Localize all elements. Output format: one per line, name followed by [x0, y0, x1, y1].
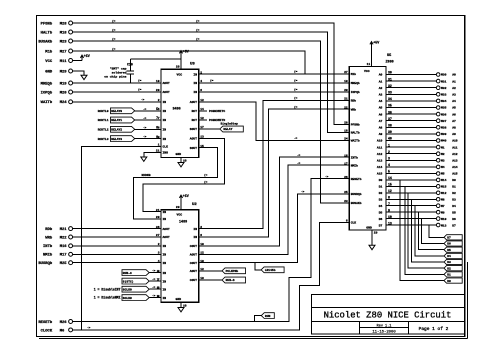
svg-text:RDb: RDb [351, 99, 357, 103]
svg-text:M22: M22 [60, 236, 68, 240]
svg-text:M4: M4 [441, 166, 445, 169]
svg-text:MREQb: MREQb [351, 81, 360, 85]
svg-text:1 = DisableNMI: 1 = DisableNMI [94, 296, 121, 300]
svg-text:AOUT: AOUT [163, 228, 170, 231]
svg-text:(=: (= [294, 79, 298, 83]
svg-text:D0: D0 [452, 179, 456, 182]
svg-text:A9: A9 [379, 133, 383, 136]
svg-text:20: 20 [344, 89, 348, 92]
svg-text:A15: A15 [452, 173, 458, 176]
svg-text:M30: M30 [441, 74, 447, 77]
svg-text:M17: M17 [60, 254, 68, 258]
connector pin M27 (M1b) [45, 49, 72, 54]
U2 right pin 6 IN [193, 234, 202, 239]
U3 right pin 12 AOUT [190, 99, 204, 104]
svg-text:RELAY2: RELAY2 [111, 129, 122, 132]
svg-text:AOUT: AOUT [190, 138, 197, 141]
U5 left pin 27 M1b [344, 71, 356, 76]
U5 right pin 14 D0 to connector M14 [379, 176, 456, 182]
svg-text:SingleStep: SingleStep [221, 122, 239, 126]
svg-text:RCT: RCT [192, 110, 198, 113]
svg-text:M1: M1 [441, 146, 445, 149]
U5 left pin 21 RDb [344, 98, 356, 103]
svg-text:(=: (= [294, 105, 298, 109]
svg-text:U2: U2 [192, 203, 197, 207]
U5 pin 11 VCC +5V [367, 41, 380, 67]
svg-text:D1: D1 [447, 274, 451, 277]
U3 left pin 18 AOUT [156, 80, 170, 85]
svg-text:RELAY0: RELAY0 [111, 110, 122, 113]
svg-text:5: 5 [156, 107, 158, 111]
net flag RUN~C to U2 pin 3 [122, 269, 161, 276]
svg-text:D3: D3 [447, 261, 451, 264]
svg-text:7: 7 [157, 278, 159, 281]
U2 left pin 21 IN [156, 209, 166, 214]
net flag SCLK0 to U2 pin 9 [122, 294, 161, 301]
wire WRb M22 to U2 [73, 236, 161, 238]
svg-text:D0: D0 [379, 179, 383, 182]
svg-text:C10: C10 [127, 63, 133, 67]
connector pin M20 (IOPQb) [41, 90, 73, 95]
svg-text:WAITb: WAITb [41, 100, 53, 105]
wire CLOCK M6 to U5 pin 6 [73, 222, 350, 330]
svg-text:(=: (= [204, 180, 208, 184]
svg-text:AOUT: AOUT [163, 82, 170, 85]
U2 left pin 36 AOUT [156, 226, 170, 231]
U3 pin 10 GND ground [178, 158, 187, 167]
svg-text:M12: M12 [441, 192, 447, 195]
svg-text:A8: A8 [452, 127, 456, 130]
svg-text:->: -> [152, 277, 156, 281]
svg-text:M11: M11 [60, 60, 68, 64]
svg-text:D1: D1 [452, 186, 456, 189]
svg-text:D2: D2 [447, 267, 451, 270]
svg-text:A15: A15 [377, 173, 383, 176]
svg-text:->: -> [325, 174, 329, 178]
svg-text:PCLKPNb: PCLKPNb [226, 269, 239, 273]
svg-text:(=: (= [196, 19, 200, 23]
svg-text:20: 20 [176, 66, 180, 69]
svg-text:->: -> [143, 116, 147, 120]
svg-text:VCC: VCC [177, 72, 183, 76]
U2 left pin 3 IN [158, 270, 167, 275]
U5 right pin 4 A14 to connector M4 [377, 163, 458, 169]
connector pin M21 (RDb) [45, 227, 72, 232]
wire U3 pin 13 to U2 pin 21 [143, 138, 225, 211]
U5 right pin 1 A11 to connector M1 [377, 143, 458, 149]
svg-text:AOUT: AOUT [190, 101, 197, 104]
svg-text:A5: A5 [452, 107, 456, 110]
wire IOPQb net U3 to U5 pin 20 [199, 88, 350, 92]
svg-text:D2: D2 [379, 192, 383, 195]
U5 right pin 8 D3 to connector M8 [379, 195, 456, 201]
svg-text:4: 4 [200, 80, 202, 83]
svg-text:S(STC): S(STC) [123, 279, 134, 283]
U3 right pin 6 IN [193, 89, 202, 94]
U5 right pin 9 D5 to connector M9 [379, 208, 456, 214]
U3 left pin 8 IN [158, 127, 167, 132]
svg-text:1489: 1489 [179, 221, 187, 225]
svg-text:AOUT: AOUT [190, 270, 197, 273]
svg-text:M28: M28 [60, 22, 68, 26]
U2 left pin 3 IN [158, 252, 167, 257]
svg-text:PFSNb: PFSNb [351, 123, 360, 127]
net flag SCLK0 to U2 pin 9 [122, 285, 161, 292]
svg-text:(=: (= [196, 37, 200, 41]
svg-text:M27: M27 [60, 50, 68, 54]
connector pin M29 (GND) [45, 69, 72, 74]
svg-text:IN: IN [163, 288, 167, 291]
svg-text:IN: IN [193, 73, 197, 76]
U2 left pin 9 IN [158, 286, 167, 291]
svg-text:->: -> [152, 294, 156, 298]
wire MREQb net U3 to U5 pin 19 [199, 79, 350, 83]
svg-text:CLK: CLK [163, 146, 169, 149]
svg-text:28: 28 [156, 89, 160, 92]
U5 right pin 31 A1 to connector M31 [379, 77, 456, 83]
svg-text:A9: A9 [452, 133, 456, 136]
U5 left pin 28 PFSNb [344, 122, 360, 127]
U3 left pin 2 IN [158, 99, 167, 104]
U5 right pin 36 A6 to connector M36 [379, 110, 456, 116]
connector pin M24 (WAITb) [41, 100, 73, 105]
svg-text:M7: M7 [441, 205, 445, 208]
svg-text:SOUT: SOUT [190, 128, 197, 131]
svg-text:(=: (= [138, 88, 142, 92]
svg-text:M21: M21 [60, 228, 68, 232]
svg-text:D6: D6 [447, 243, 451, 246]
svg-text:A7: A7 [452, 120, 456, 123]
svg-text:M36: M36 [441, 113, 447, 116]
svg-text:+5V: +5V [183, 194, 189, 198]
wire INTb M16 to U2 [73, 245, 161, 247]
svg-text:A4: A4 [452, 100, 456, 103]
svg-text:RUN~S: RUN~S [226, 279, 235, 282]
svg-text:IN: IN [193, 236, 197, 239]
U3 right pin 13 AOUT [190, 136, 204, 141]
svg-text:M18: M18 [60, 31, 68, 35]
svg-text:D7: D7 [447, 237, 451, 240]
title block [312, 295, 465, 335]
wire D5 to net flag [418, 212, 444, 250]
net flag D1 [444, 272, 462, 277]
svg-text:M6: M6 [60, 329, 65, 333]
svg-text:A11: A11 [377, 146, 383, 149]
wire HALTb net M18 to U5 pin 18 [73, 28, 350, 133]
svg-text:+5V: +5V [183, 50, 189, 54]
svg-text:U3: U3 [190, 63, 195, 67]
svg-text:M9: M9 [441, 211, 445, 214]
svg-text:9: 9 [157, 295, 159, 298]
svg-text:IN: IN [163, 101, 167, 104]
svg-text:RDb: RDb [45, 227, 53, 232]
svg-text:(=: (= [112, 28, 116, 32]
svg-text:M1b: M1b [351, 72, 357, 76]
svg-text:A10: A10 [452, 140, 458, 143]
svg-text:12: 12 [200, 99, 204, 102]
wire WRb U2 to U5 pin 22 [199, 105, 350, 237]
svg-text:->: -> [143, 107, 147, 111]
svg-text:D5: D5 [447, 249, 451, 252]
svg-text:AOUT: AOUT [190, 254, 197, 257]
net flag RELAY0 (RCRTL0) to U3 pin 5 [98, 107, 161, 114]
svg-text:M35: M35 [441, 107, 447, 110]
svg-text:M26: M26 [60, 321, 68, 325]
svg-text:WRb: WRb [351, 107, 357, 111]
net flag S(STC) to U2 pin 7 [122, 277, 161, 284]
svg-text:RCRTL0: RCRTL0 [98, 110, 109, 113]
svg-text:A13: A13 [452, 160, 458, 163]
svg-text:20: 20 [156, 216, 160, 219]
svg-text:17: 17 [344, 162, 348, 165]
U2 pin 10 GND ground [178, 302, 187, 312]
svg-text:RCRTL2: RCRTL2 [98, 129, 109, 132]
U5 right pin 12 D2 to connector M12 [379, 189, 456, 195]
svg-text:M33: M33 [441, 94, 447, 97]
svg-text:A13: A13 [377, 160, 383, 163]
wire RDb M21 to U2 [73, 228, 161, 230]
svg-text:M3: M3 [441, 160, 445, 163]
svg-text:(=: (= [196, 28, 200, 32]
svg-text:Page 1 of 2: Page 1 of 2 [419, 326, 449, 332]
svg-text:BUSAKb: BUSAKb [351, 201, 362, 205]
svg-text:VCC: VCC [177, 213, 183, 217]
wire BUSAKb net M23 to U5 pin 23 [73, 37, 350, 203]
svg-text:18: 18 [344, 130, 348, 133]
svg-text:27: 27 [344, 71, 348, 74]
U5 right pin 7 D4 to connector M7 [379, 202, 456, 208]
svg-text:GND: GND [45, 70, 53, 74]
svg-text:RCT: RCT [192, 119, 198, 122]
net PCBRXMITC at U3 pin 14 [199, 110, 226, 113]
U2 right pin 10 COUT [190, 260, 204, 265]
svg-text:PFSNb: PFSNb [41, 21, 53, 26]
wire +5V branch to C10 [130, 58, 181, 60]
svg-text:RELAY3: RELAY3 [111, 138, 122, 141]
revision Rev 1.1 [377, 325, 392, 329]
U5 right pin 30 A0 to connector M30 [379, 71, 456, 77]
svg-text:IOPQb: IOPQb [41, 90, 53, 95]
svg-text:RXDNB: RXDNB [142, 174, 151, 177]
svg-text:M5: M5 [441, 173, 445, 176]
svg-text:NMIb: NMIb [351, 163, 358, 167]
wire INTb U2 to U5 pin 16 [199, 153, 350, 246]
net flag RELAY3 (RCRTL3) to U3 pin 9 [98, 135, 161, 142]
svg-text:IN: IN [193, 228, 197, 231]
buffer U3 3486 [161, 63, 199, 158]
svg-text:A3: A3 [379, 94, 383, 97]
U3 right pin 2 IN [193, 71, 202, 76]
svg-text:3: 3 [157, 270, 159, 273]
svg-text:D2: D2 [452, 192, 456, 195]
connector pin M19 (MREQb) [41, 81, 73, 86]
U5 right pin 39 A9 to connector M39 [379, 130, 456, 136]
svg-text:(=: (= [138, 79, 142, 83]
svg-text:CLOCK: CLOCK [41, 329, 53, 333]
svg-text:IN: IN [163, 254, 167, 257]
svg-text:A6: A6 [452, 113, 456, 116]
svg-text:NMIb: NMIb [43, 253, 53, 258]
U5 right pin 13 D7 to connector M13 [379, 221, 456, 227]
svg-text:24: 24 [344, 138, 348, 141]
svg-text:M23: M23 [60, 40, 68, 44]
wire U3 pin 15 to U2 pin 20 [133, 148, 217, 219]
svg-text:(=: (= [210, 79, 214, 83]
svg-text:19: 19 [344, 80, 348, 83]
connector pin M28 (PFSNb) [41, 21, 73, 26]
svg-text:INTb: INTb [43, 244, 53, 249]
svg-text:A0: A0 [452, 74, 456, 77]
svg-text:M15: M15 [441, 186, 447, 189]
svg-text:->: -> [87, 326, 91, 330]
svg-text:(=: (= [112, 19, 116, 23]
svg-text:->: -> [294, 136, 298, 140]
connector pin M26 (RESETb) [38, 320, 72, 325]
wire GND M29 to ground [73, 71, 84, 75]
svg-text:AOUT: AOUT [163, 91, 170, 94]
svg-text:28: 28 [344, 122, 348, 125]
net label RXDNB [142, 174, 151, 177]
svg-text:COUT: COUT [190, 279, 197, 282]
wire M1b net U3 pin 2 segment [199, 73, 305, 75]
svg-text:GND: GND [366, 226, 372, 230]
svg-text:RESETb: RESETb [351, 177, 362, 181]
connector pin M11 (VCC) [45, 59, 72, 64]
svg-text:D3: D3 [379, 198, 383, 201]
svg-text:M24: M24 [60, 101, 68, 105]
U2 left pin 9 IN [158, 295, 167, 300]
wire CLOCK net to U3 pin 1 CLK [81, 147, 161, 330]
wire RESETb M26 to U5 pin 26 [73, 174, 350, 321]
note 1 = DisableNMI [94, 296, 121, 300]
svg-text:IOPQb: IOPQb [351, 90, 360, 94]
U5 right pin 5 A15 to connector M5 [377, 170, 458, 176]
svg-text:PCBRXMITC: PCBRXMITC [209, 110, 225, 113]
svg-text:on chip pins: on chip pins [104, 75, 126, 79]
svg-text:21: 21 [344, 98, 348, 101]
svg-text:22: 22 [344, 106, 348, 109]
wire U3 pin 21 to ground [144, 152, 161, 157]
svg-text:M8: M8 [441, 198, 445, 201]
U5 left pin 23 BUSAKb [344, 200, 362, 205]
U5 right pin 40 A10 to connector M40 [377, 137, 458, 143]
svg-text:BUSRQb: BUSRQb [351, 192, 362, 196]
svg-text:D6: D6 [379, 218, 383, 221]
U5 left pin 25 BUSRQb [344, 191, 362, 196]
svg-text:BUSRQb: BUSRQb [38, 261, 53, 266]
svg-text:CLK: CLK [351, 222, 357, 225]
svg-text:A5: A5 [379, 107, 383, 110]
wire D1 to net flag [405, 186, 444, 274]
net flag PCLKPNb at U2 pin 12 [199, 268, 246, 274]
U5 left pin 22 WRb [344, 106, 356, 111]
svg-text:COUT: COUT [190, 245, 197, 248]
svg-text:A6: A6 [379, 113, 383, 116]
connector pin M22 (WRb) [45, 235, 72, 240]
net flag D0 [444, 278, 462, 283]
svg-text:IN: IN [163, 262, 167, 265]
svg-text:->: -> [143, 125, 147, 129]
svg-text:M14: M14 [441, 179, 447, 182]
svg-text:M39: M39 [441, 133, 447, 136]
svg-text:7: 7 [156, 116, 158, 120]
U5 right pin 34 A4 to connector M34 [379, 97, 456, 103]
drawing border frame [37, 16, 465, 337]
net flag D6 [444, 241, 462, 246]
wire D4 to net flag [415, 206, 444, 256]
svg-text:A1: A1 [379, 80, 383, 83]
svg-text:M1b: M1b [45, 49, 53, 54]
connector pin M16 (INTb) [43, 244, 73, 249]
wire WAITb net U3 to U5 pin 24 [199, 102, 350, 141]
svg-text:(=: (= [112, 47, 116, 51]
svg-text:HALTb: HALTb [351, 131, 360, 135]
note 1 = DisableINT [94, 287, 121, 291]
svg-text:IN: IN [163, 119, 167, 122]
svg-text:->: -> [297, 161, 301, 165]
svg-text:A14: A14 [452, 166, 458, 169]
svg-text:RUN: RUN [265, 315, 271, 318]
svg-text:IN: IN [163, 211, 167, 214]
svg-text:D4: D4 [452, 205, 456, 208]
U2 right pin 12 AOUT [190, 252, 204, 257]
svg-text:->: -> [297, 153, 301, 157]
svg-text:VCC: VCC [364, 69, 370, 73]
U3 right pin 15 SOUT [190, 145, 204, 150]
svg-text:D5: D5 [379, 211, 383, 214]
svg-text:(=: (= [294, 70, 298, 74]
svg-text:->: -> [152, 269, 156, 273]
svg-text:A12: A12 [377, 153, 383, 156]
svg-text:RESETb: RESETb [38, 320, 53, 325]
svg-text:A12: A12 [452, 153, 458, 156]
svg-text:2: 2 [200, 71, 202, 74]
svg-text:COUT: COUT [190, 262, 197, 265]
net flag D3 [444, 259, 462, 264]
U3 right pin 4 IN [193, 80, 202, 85]
svg-text:9: 9 [156, 135, 158, 139]
U3 left pin 28 AOUT [156, 89, 170, 94]
wire NMIb M17 to U2 [73, 253, 161, 255]
U5 left pin 24 WAITb [344, 138, 360, 143]
U2 left pin 20 IN [156, 216, 166, 221]
U2 left pin 27 AOUT [156, 234, 170, 239]
wire BUSRQb M25 to U2 [73, 262, 161, 264]
svg-text:WAITb: WAITb [351, 139, 360, 143]
U2 left pin 4 IN [158, 260, 167, 265]
svg-text:M13: M13 [441, 224, 447, 227]
svg-text:RCRTL1: RCRTL1 [98, 119, 109, 122]
svg-text:+5V: +5V [373, 41, 379, 45]
svg-text:M34: M34 [441, 100, 447, 103]
net flag D7 [444, 235, 462, 240]
svg-text:IN: IN [193, 82, 197, 85]
U3 right pin 12 RCT [192, 117, 204, 122]
U3 left pin 5 IN [158, 108, 167, 113]
svg-text:M31: M31 [441, 80, 447, 83]
ground symbol at GND pin [81, 75, 87, 79]
svg-text:A10: A10 [377, 140, 383, 143]
svg-text:MREQb: MREQb [41, 81, 53, 86]
svg-text:M25: M25 [60, 262, 68, 266]
svg-text:6: 6 [346, 220, 348, 223]
svg-text:IN: IN [163, 218, 167, 221]
svg-text:3486: 3486 [173, 108, 181, 112]
U2 right pin 12 AOUT [190, 268, 204, 273]
svg-text:->: -> [143, 135, 147, 139]
net flag RELAY1 (RCRTL1) to U3 pin 7 [98, 116, 161, 123]
svg-text:M38: M38 [441, 127, 447, 130]
